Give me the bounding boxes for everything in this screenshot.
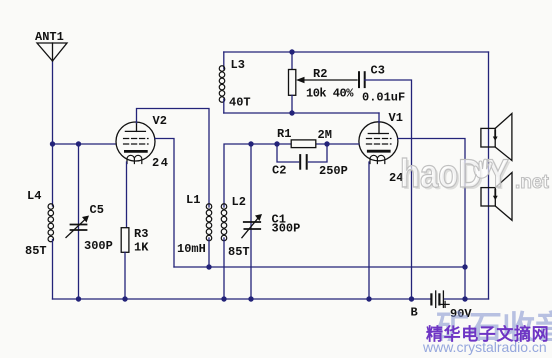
node: R3 bottom on ground rail	[122, 296, 127, 301]
node: L1 bottom junction	[206, 264, 211, 269]
armature arrow speaker 2	[493, 190, 498, 201]
node: C1 bottom on ground rail	[248, 296, 253, 301]
wire: grid wire L3 bottom to V1 top	[224, 112, 379, 114]
wire: V2 filament lead down to R3	[126, 162, 128, 228]
node: L2 bottom on ground rail	[221, 296, 226, 301]
capacitor C3	[359, 72, 365, 87]
resistor R3	[121, 228, 129, 253]
inductor L3	[223, 52, 225, 69]
node: C1 top	[248, 141, 253, 146]
wire: C3 right to ground drop	[365, 80, 412, 299]
capacitor C1 (variable)	[250, 144, 252, 299]
svg-text:.net: .net	[515, 172, 549, 193]
wire: L3 bottom lead	[223, 99, 225, 113]
node: battery right junction	[462, 296, 467, 301]
node: C5 top junction	[76, 141, 81, 146]
wire: V1 top cap lead	[378, 113, 380, 123]
wire: L1 bottom lead	[208, 238, 210, 267]
wire: ground rail	[53, 298, 412, 300]
node: plate drop / B+ run junction	[462, 264, 467, 269]
node: C5 bottom on ground rail	[76, 296, 81, 301]
node: V1 filament on ground rail	[366, 296, 371, 301]
watermark crystalradio block	[436, 301, 552, 341]
wire: V1 filament lead down	[368, 162, 370, 299]
hand glyph of haoDY logo	[474, 159, 492, 178]
wiper of R2	[296, 77, 357, 83]
node: R2 bottom	[289, 110, 294, 115]
speaker/earpiece 1	[481, 114, 512, 161]
node: R2 top	[289, 49, 294, 54]
wire: V1 plate lead right and down	[398, 139, 465, 300]
wire: grid coupling run y=144 from L2 top	[224, 144, 359, 207]
wire: bottom right return to speakers	[465, 298, 489, 300]
wire: battery left stub	[412, 298, 431, 300]
node: battery left (B)	[409, 296, 414, 301]
wire: B+ feed run y=267	[174, 266, 465, 268]
wire: antenna down lead	[52, 61, 54, 144]
tube V1	[359, 122, 398, 164]
wire: L4 lower lead	[52, 240, 54, 300]
armature arrow speaker 1	[493, 131, 498, 142]
svg-text:Y: Y	[487, 151, 509, 196]
resistor R1	[291, 140, 316, 148]
capacitor C2	[277, 144, 299, 162]
wire: L4 upper lead	[52, 144, 54, 206]
wire: grid wire from antenna node to V2 left	[53, 143, 116, 145]
potentiometer R2	[291, 52, 293, 70]
wire: V2 screen lead right and down	[155, 139, 174, 268]
node: R1/C2 right	[324, 141, 329, 146]
battery B 90V	[431, 291, 449, 307]
inductor L4	[48, 204, 54, 242]
capacitor C5 (variable)	[78, 144, 80, 299]
inductor L2	[221, 204, 227, 241]
inductor L1	[206, 204, 212, 241]
node: antenna/L4 junction	[50, 141, 55, 146]
wire: top B+ rail	[224, 51, 489, 53]
tube V2	[116, 122, 155, 164]
svg-text:haoD: haoD	[400, 151, 482, 196]
speaker/earpiece 2	[481, 173, 512, 221]
antenna ANT1	[37, 43, 67, 61]
node: R1/C2 left	[274, 141, 279, 146]
wire: R3 bottom lead	[124, 252, 126, 299]
wire: V2 grid-cap up and over to L1	[137, 109, 210, 208]
wire: speaker chain drop	[488, 52, 490, 299]
wire: L2 bottom lead	[223, 238, 225, 299]
wire: battery right stub	[444, 298, 465, 300]
